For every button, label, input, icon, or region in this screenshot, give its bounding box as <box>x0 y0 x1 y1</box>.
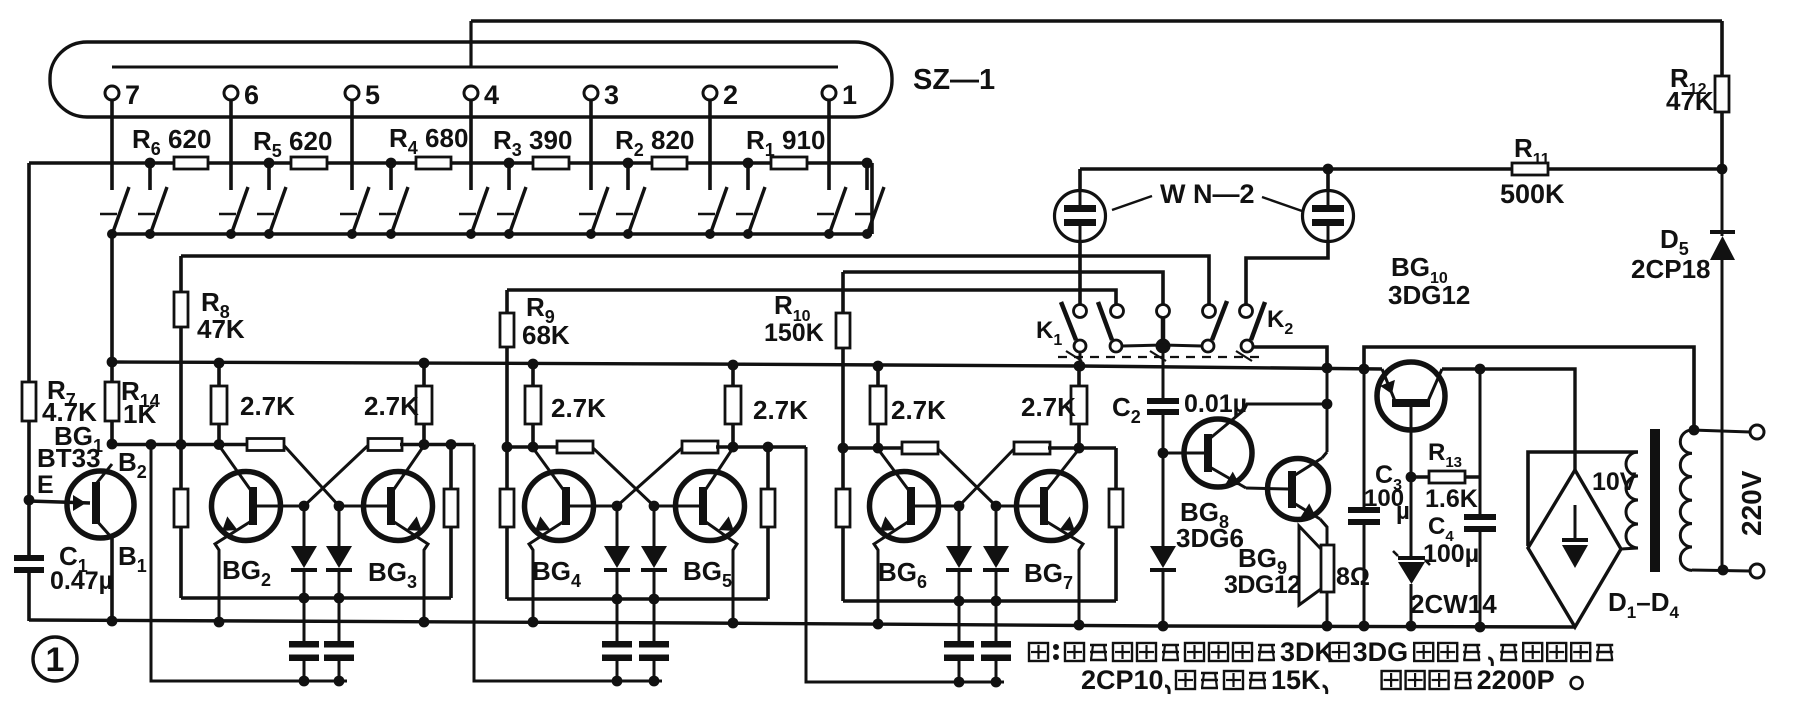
svg-text:2.7K: 2.7K <box>551 393 606 423</box>
wire pin 2 to key switch <box>708 100 712 190</box>
wire pin 7 to key switch <box>110 100 114 190</box>
svg-text:2.7K: 2.7K <box>364 391 419 421</box>
wire pot1 bottom to switch K1 <box>1079 226 1082 241</box>
capacitor C4 100u <box>1464 514 1496 520</box>
svg-text:R1 910: R1 910 <box>746 125 825 160</box>
clamp diode below C2 <box>1162 453 1165 546</box>
resistor R3 390 <box>533 157 569 169</box>
coupling resistor left stage 1 <box>247 439 284 451</box>
zener diode 2CW14 <box>1410 477 1413 558</box>
key switch contact at x=471 <box>459 213 476 216</box>
svg-text:500K: 500K <box>1500 179 1565 209</box>
trigger capacitor stage 3 2200P <box>995 601 998 641</box>
steering diode stage 1 at x=304 <box>303 506 306 546</box>
junction on resistor chain <box>504 158 515 169</box>
wire R13 right to C4 <box>1479 369 1482 514</box>
svg-text:100µ: 100µ <box>1423 540 1479 568</box>
trigger capacitor stage 2 2200P <box>653 599 656 641</box>
resistor R2 820 <box>652 157 687 169</box>
wire C2 to BG8 base <box>1162 415 1165 453</box>
switch lever 3 <box>1161 318 1166 339</box>
junction on resistor chain <box>862 158 873 169</box>
trigger capacitor stage 2 2200P <box>616 599 619 641</box>
svg-text:0.47µ: 0.47µ <box>50 567 113 595</box>
svg-text:5: 5 <box>365 80 380 110</box>
svg-text:2.7K: 2.7K <box>891 395 946 425</box>
svg-text:15K: 15K <box>1271 665 1321 695</box>
wire main supply bus <box>113 362 1382 369</box>
svg-text:6: 6 <box>244 80 259 110</box>
switch K2 contact 4 <box>1203 305 1216 318</box>
junction on resistor chain <box>623 158 634 169</box>
pin 3 terminal of SZ-1 <box>584 86 598 100</box>
key switch contact at x=628 <box>616 213 633 216</box>
wire collector node line left stage 1 <box>112 443 249 447</box>
wire cross coupling diagonals stage 1 <box>284 446 339 507</box>
svg-text:68K: 68K <box>522 320 570 350</box>
coupling resistor right stage 1 <box>368 439 402 451</box>
switch K1 contact 2 <box>1111 305 1124 318</box>
key switch contact at x=352 <box>340 213 357 216</box>
wire stub to key switch <box>507 163 511 190</box>
switch lever 4 <box>1212 301 1227 340</box>
key switch contact at x=591 <box>579 213 596 216</box>
wire pot2 top to R11 line <box>1326 169 1330 192</box>
wire collector node line right stage 3 <box>1048 446 1116 450</box>
transformer core <box>1650 429 1660 572</box>
wire BG10 emitter down <box>1410 407 1413 477</box>
svg-text:2200P: 2200P <box>1477 665 1555 695</box>
svg-text:1.6K: 1.6K <box>1425 485 1478 513</box>
resistor base bias left stage 2 15K <box>505 447 509 491</box>
wire top supply line to R12 <box>471 19 1722 22</box>
transistor BG8 3DG6 <box>1184 419 1252 487</box>
wire common junction to switch4 <box>1163 345 1202 346</box>
resistor 2.7K collector left stage 1 <box>217 363 221 388</box>
junction on resistor chain <box>743 158 754 169</box>
svg-text:220V: 220V <box>1736 470 1767 536</box>
pin 1 terminal of SZ-1 <box>822 86 836 100</box>
wire switch1 bottom to bus <box>1079 352 1082 366</box>
resistor base bias right stage 3 15K <box>1114 448 1118 489</box>
wire steering diode line stage 3 <box>843 599 1116 603</box>
wire collector node line left stage 3 <box>843 446 904 450</box>
wire stub to key switch <box>148 163 152 190</box>
svg-text:3: 3 <box>604 80 619 110</box>
wire B from R10 to switch K selector <box>843 272 1163 304</box>
resistor base bias right stage 1 15K <box>449 445 453 490</box>
svg-text:2: 2 <box>723 80 738 110</box>
svg-text:E: E <box>37 471 54 499</box>
note text line 1 <box>1029 643 1048 661</box>
steering diode stage 1 at x=339 <box>338 506 341 546</box>
wire pin 6 to key switch <box>229 100 233 190</box>
svg-text:R5 620: R5 620 <box>253 126 332 161</box>
trigger capacitor stage 1 2200P <box>303 598 306 641</box>
switch bus under keys <box>112 232 872 235</box>
svg-text:2CW14: 2CW14 <box>1410 589 1497 619</box>
wire 220V upper terminal <box>1692 430 1750 432</box>
wire steering diode line stage 1 <box>181 596 451 600</box>
wire pin 3 to key switch <box>589 100 593 190</box>
resistor R13 1.6K <box>1411 475 1431 479</box>
transistor BG3 <box>364 472 433 541</box>
key switch contact at x=748 <box>736 213 753 216</box>
wire pot2 bottom to switch K2 <box>1327 226 1330 241</box>
wire collector node line right stage 2 <box>716 445 768 449</box>
svg-text:2.7K: 2.7K <box>1021 392 1076 422</box>
keyboard inner bus line <box>112 66 838 69</box>
wire steering diode line stage 2 <box>507 597 768 601</box>
svg-text:R4 680: R4 680 <box>389 123 468 158</box>
wire R7 to C1 <box>27 500 31 555</box>
svg-text:1: 1 <box>46 641 65 679</box>
transistor BG9 3DG12 <box>1268 459 1329 520</box>
transistor BG4 <box>525 472 594 541</box>
wire 220V lower terminal <box>1692 570 1750 571</box>
svg-text:1: 1 <box>842 80 857 110</box>
wire switch5 bottom to bus <box>1253 347 1327 368</box>
capacitor C1 0.47u <box>14 555 44 561</box>
resistor 2.7K collector right stage 2 <box>731 364 735 388</box>
resistor base bias left stage 1 15K <box>179 445 183 492</box>
wire trigger line stage 2 <box>474 445 662 682</box>
wire trigger line stage 1 <box>151 445 347 682</box>
wire collectors to bus <box>1326 368 1329 452</box>
transformer secondary 10V winding <box>1626 452 1638 548</box>
wire down from top feed <box>1364 347 1694 430</box>
resistor 2.7K collector left stage 3 <box>876 366 880 388</box>
wire stub to key switch <box>267 163 271 190</box>
wire cross coupling diagonals stage 3 <box>938 449 996 506</box>
svg-text:7: 7 <box>125 80 140 110</box>
pin 7 terminal of SZ-1 <box>105 86 119 100</box>
transistor BG7 <box>1017 472 1086 541</box>
key switch contact at x=829 <box>817 213 834 216</box>
svg-text:D1–D4: D1–D4 <box>1608 587 1680 622</box>
resistor R11 500K <box>1080 167 1514 171</box>
resistor R9 68K <box>505 290 509 315</box>
wire bridge AC left to secondary top <box>1528 452 1638 546</box>
svg-text:R3 390: R3 390 <box>493 125 572 160</box>
pin 4 terminal of SZ-1 <box>464 86 478 100</box>
speaker 8 ohm <box>1321 545 1334 592</box>
svg-text:47K: 47K <box>1666 86 1714 116</box>
svg-text:150K: 150K <box>764 319 824 347</box>
wire cross coupling diagonals stage 2 <box>593 448 654 506</box>
steering diode stage 2 at x=617 <box>616 506 619 546</box>
resistor 2.7K collector right stage 1 <box>422 363 426 388</box>
transistor BG5 <box>676 472 745 541</box>
key switch contact at x=231 <box>219 213 236 216</box>
vibrato trimmer WN-2 unit 1 <box>1055 191 1106 242</box>
svg-text:3DG12: 3DG12 <box>1224 571 1301 599</box>
wire B1 to bottom bus <box>110 538 114 621</box>
resistor R5 620 <box>291 157 327 169</box>
key switch contact at x=391 <box>379 213 396 216</box>
resistor R7 4.7K <box>27 382 31 386</box>
svg-text:SZ—1: SZ—1 <box>913 64 995 96</box>
key switch contact at x=269 <box>257 213 274 216</box>
wire row right end down to switch bus <box>870 163 874 234</box>
key switch contact at x=509 <box>497 213 514 216</box>
svg-text:3DG: 3DG <box>1353 637 1409 667</box>
coupling resistor right stage 3 <box>1014 442 1050 454</box>
unijunction transistor BG1 BT33 <box>67 471 134 538</box>
svg-text:3DG12: 3DG12 <box>1388 280 1470 310</box>
switch K1/K2 common contact 3 <box>1157 305 1170 318</box>
svg-text:2.7K: 2.7K <box>753 395 808 425</box>
wire resistor chain row <box>29 161 872 165</box>
svg-text:1K: 1K <box>123 399 156 429</box>
trigger capacitor stage 3 2200P <box>958 601 961 641</box>
vibrato trimmer WN-2 unit 2 <box>1303 191 1354 242</box>
key switch contact at x=150 <box>138 213 155 216</box>
wire stub to key switch <box>865 163 869 190</box>
resistor 2.7K collector left stage 2 <box>531 364 535 388</box>
wire stub to key switch <box>626 163 630 190</box>
svg-text:R2 820: R2 820 <box>615 125 694 160</box>
resistor R4 680 <box>416 157 451 169</box>
resistor R8 47K <box>179 256 183 294</box>
transistor BG6 <box>870 472 939 541</box>
wire collector node line right stage 1 <box>400 443 451 447</box>
resistor R12 47K <box>1720 21 1724 78</box>
svg-text:2CP18: 2CP18 <box>1631 254 1711 284</box>
resistor R10 150K <box>841 272 845 315</box>
switch K2 contact 5 <box>1240 305 1253 318</box>
node E junction <box>24 495 35 506</box>
wire bottom ground bus <box>29 620 1575 627</box>
transformer primary winding <box>1680 430 1692 570</box>
switch lever 2 <box>1098 302 1112 340</box>
resistor R6 620 <box>174 157 208 169</box>
terminal 220V upper <box>1750 425 1764 439</box>
wire emitter E to BG1 <box>29 501 90 503</box>
wire secondary bottom to bridge AC right <box>1621 548 1638 549</box>
capacitor C2 0.01u <box>1147 398 1179 404</box>
svg-text:W N—2: W N—2 <box>1160 179 1255 209</box>
steering diode stage 2 at x=654 <box>653 506 656 546</box>
key switch contact at x=112 <box>100 213 117 216</box>
key switch contact at x=867 <box>855 213 872 216</box>
pin 2 terminal of SZ-1 <box>703 86 717 100</box>
svg-text:µ: µ <box>1396 498 1410 525</box>
svg-text:3DG6: 3DG6 <box>1176 523 1244 553</box>
svg-text:4: 4 <box>484 80 499 110</box>
wire left vertical from resistor row <box>27 163 31 384</box>
wire pin 4 to key switch <box>469 100 473 190</box>
switch K1 contact 1 <box>1074 305 1087 318</box>
wire C from R9 to switch K selector <box>507 290 1116 304</box>
coupling resistor left stage 3 <box>902 442 938 454</box>
wire trigger line stage 3 <box>806 447 1004 682</box>
wire stage 1 output corner <box>451 443 474 447</box>
svg-text:47K: 47K <box>197 314 245 344</box>
transistor BG2 <box>212 472 281 541</box>
resistor R1 910 <box>771 157 807 169</box>
wire bus right of BG10 <box>1442 369 1575 470</box>
wire A from R8 to switch K selector <box>181 256 1209 304</box>
wire BG1 B2 lead <box>96 464 112 484</box>
switch lever 5 <box>1251 302 1265 340</box>
wire collector node line left stage 2 <box>507 445 559 449</box>
wire stage 2 output corner <box>768 445 806 449</box>
capacitor C3 100u <box>1363 369 1366 507</box>
coupling resistor left stage 2 <box>557 441 593 453</box>
transistor BG10 3DG12 series regulator <box>1377 362 1445 430</box>
terminal 220V lower <box>1750 564 1764 578</box>
wire selector common down to C2 <box>1162 345 1165 398</box>
keyboard SZ-1 outline <box>50 42 892 117</box>
figure number 1 <box>33 637 77 681</box>
resistor base bias left stage 3 15K <box>841 448 845 491</box>
resistor R14 1K <box>110 234 114 362</box>
steering diode stage 3 at x=959 <box>958 506 961 546</box>
wire pin 1 to key switch <box>827 100 831 190</box>
junction on resistor chain <box>145 158 156 169</box>
wire pot1 top to R11 line <box>1078 169 1082 192</box>
wire switch2 bottom to common junction <box>1122 345 1163 346</box>
pin 5 terminal of SZ-1 <box>345 86 359 100</box>
switch lever 1 <box>1061 302 1076 340</box>
svg-text:R6 620: R6 620 <box>132 124 211 159</box>
wire pin 5 to key switch <box>350 100 354 190</box>
resistor base bias right stage 2 15K <box>766 447 770 489</box>
pin 6 terminal of SZ-1 <box>224 86 238 100</box>
key switch contact at x=710 <box>698 213 715 216</box>
diode D5 2CP18 <box>1721 169 1724 236</box>
wire stub to key switch <box>746 163 750 190</box>
svg-text:3DK: 3DK <box>1280 637 1335 667</box>
junction on resistor chain <box>264 158 275 169</box>
trigger capacitor stage 1 2200P <box>338 598 341 641</box>
steering diode stage 3 at x=996 <box>995 506 998 546</box>
junction on resistor chain <box>386 158 397 169</box>
wire stub to key switch <box>389 163 393 190</box>
wire BG1 B1 lead <box>96 520 112 538</box>
svg-text:2CP10: 2CP10 <box>1081 665 1164 695</box>
resistor 2.7K collector right stage 3 <box>1077 366 1081 388</box>
coupling resistor right stage 2 <box>682 441 718 453</box>
switch ganging linkage <box>1058 356 1262 358</box>
svg-text:2.7K: 2.7K <box>240 391 295 421</box>
bridge rectifier D1-D4 <box>1528 470 1621 627</box>
svg-text:BT33: BT33 <box>37 443 101 473</box>
